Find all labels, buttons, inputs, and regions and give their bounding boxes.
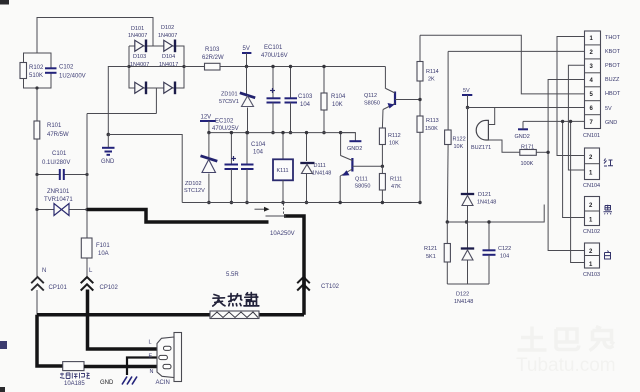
transistor Q112 xyxy=(364,67,420,129)
capacitor EC101 xyxy=(261,45,288,134)
diode D111 xyxy=(300,131,331,204)
zener ZD102 xyxy=(184,133,217,205)
transistor Q111 xyxy=(339,131,383,204)
capacitor C122 xyxy=(483,220,512,284)
power flag 5V buzzer xyxy=(462,88,472,109)
wire: bridge AC2 to L line xyxy=(87,113,156,115)
wire: L column down from y113 xyxy=(86,114,88,239)
svg-text:TVR10471: TVR10471 xyxy=(44,197,73,203)
svg-text:R111: R111 xyxy=(390,177,402,183)
svg-text:10K: 10K xyxy=(389,141,399,147)
svg-text:1N4007: 1N4007 xyxy=(130,62,149,68)
svg-text:1N4007: 1N4007 xyxy=(158,33,177,39)
svg-text:CN104: CN104 xyxy=(583,183,600,189)
resistor R113 xyxy=(417,116,439,204)
svg-text:10A250V: 10A250V xyxy=(270,231,295,237)
svg-text:CN103: CN103 xyxy=(583,272,600,278)
node sensor rail xyxy=(447,205,544,223)
svg-text:5V: 5V xyxy=(243,46,250,52)
capacitor C101 on horizontal wire xyxy=(35,151,88,180)
svg-text:1N4007: 1N4007 xyxy=(128,33,147,39)
svg-text:100K: 100K xyxy=(521,161,534,167)
wire: N column down to CP101 xyxy=(36,210,38,278)
resistor R114 xyxy=(417,35,439,116)
thermal fuse 10A185 xyxy=(60,362,90,387)
svg-text:N: N xyxy=(42,268,46,274)
watermark tubatu xyxy=(516,327,616,377)
svg-text:Q111: Q111 xyxy=(355,177,368,183)
svg-text:GND2: GND2 xyxy=(515,134,530,140)
heater element 发热盘 xyxy=(210,272,259,319)
svg-text:5.5R: 5.5R xyxy=(226,272,239,278)
svg-text:F101: F101 xyxy=(96,243,110,249)
svg-text:1N4148: 1N4148 xyxy=(312,171,331,177)
svg-text:47R/5W: 47R/5W xyxy=(47,132,69,138)
svg-text:BUZ171: BUZ171 xyxy=(471,145,491,151)
svg-text:R112: R112 xyxy=(388,133,401,139)
svg-text:104: 104 xyxy=(500,254,509,260)
svg-text:E: E xyxy=(149,354,153,360)
svg-text:ZD101: ZD101 xyxy=(221,92,238,98)
wire: PBOT pin3 to CN104 pin1 xyxy=(568,65,584,170)
zener ZD101 xyxy=(219,67,255,135)
svg-text:1U2/400V: 1U2/400V xyxy=(59,74,86,80)
resistor R111 xyxy=(379,166,402,204)
svg-text:GND: GND xyxy=(100,380,114,386)
svg-text:HBOT: HBOT xyxy=(605,91,621,97)
diode D101 xyxy=(128,26,147,52)
svg-text:R101: R101 xyxy=(47,123,62,129)
svg-text:ZD102: ZD102 xyxy=(185,181,202,187)
svg-text:0.1U/280V: 0.1U/280V xyxy=(42,160,70,166)
svg-text:CT102: CT102 xyxy=(321,284,340,290)
svg-text:Q112: Q112 xyxy=(364,93,377,99)
svg-text:2K: 2K xyxy=(428,77,435,83)
resistor R121 xyxy=(424,222,450,284)
ground rail of control section xyxy=(182,202,420,204)
svg-text:R102: R102 xyxy=(29,65,44,71)
svg-text:EC102: EC102 xyxy=(215,119,234,125)
svg-text:10A185: 10A185 xyxy=(64,381,85,387)
wire: THOT pin1 to CN104 pin2 xyxy=(557,37,585,156)
wire: 5V line to CN101 pin6 xyxy=(466,107,585,109)
svg-text:Tubatu.com: Tubatu.com xyxy=(516,355,616,376)
svg-text:R113: R113 xyxy=(426,118,439,124)
thick relay feed line from ZNR junction xyxy=(87,210,269,223)
diode D104 xyxy=(159,54,178,94)
wire: thick L line CP102 down to AC inlet L pin xyxy=(88,290,167,350)
wire: thick N heater line xyxy=(37,313,304,317)
svg-text:C104: C104 xyxy=(251,142,266,148)
power flag 5V xyxy=(242,46,251,68)
svg-text:CN102: CN102 xyxy=(583,229,600,235)
connector CN102 xyxy=(583,197,612,236)
connector CP102 chevrons xyxy=(81,268,119,291)
node 12V rail xyxy=(209,132,356,134)
wire: N column to C101 line xyxy=(36,139,38,175)
svg-text:K111: K111 xyxy=(277,168,289,174)
svg-text:1N4148: 1N4148 xyxy=(454,299,473,305)
svg-text:CP101: CP101 xyxy=(49,285,68,291)
wire: left N column down from dropper xyxy=(36,88,38,121)
svg-text:D104: D104 xyxy=(162,54,175,60)
fuse F101 xyxy=(81,238,110,277)
svg-text:10K: 10K xyxy=(332,102,343,108)
svg-text:L: L xyxy=(149,340,152,346)
svg-text:470U/16V: 470U/16V xyxy=(261,53,288,59)
node 5V rail xyxy=(220,66,385,68)
svg-text:KBOT: KBOT xyxy=(605,49,621,55)
wire: top wire from dropper to bridge top center xyxy=(37,18,153,54)
svg-text:1N4148: 1N4148 xyxy=(477,200,496,206)
wire: thick line heater up to relay contact xyxy=(302,277,306,315)
svg-text:GND2: GND2 xyxy=(347,146,362,152)
svg-text:104: 104 xyxy=(300,102,311,108)
svg-text:R171: R171 xyxy=(521,145,534,151)
svg-text:D111: D111 xyxy=(314,163,326,169)
svg-text:S8050: S8050 xyxy=(355,184,371,190)
connector CP101 chevrons xyxy=(31,268,67,291)
resistor R171 xyxy=(520,145,548,168)
svg-text:5K1: 5K1 xyxy=(426,254,436,260)
diode D102 xyxy=(158,25,177,52)
svg-text:CN101: CN101 xyxy=(583,133,600,139)
svg-text:C101: C101 xyxy=(52,151,67,157)
wire: GND line to CN101 pin7 xyxy=(523,120,585,122)
svg-text:R122: R122 xyxy=(453,137,466,143)
svg-text:D122: D122 xyxy=(456,292,469,298)
svg-text:C122: C122 xyxy=(498,246,511,252)
wire: N column down to ZNR line xyxy=(36,175,38,210)
wire: KBOT line to CN101 pin2 xyxy=(448,50,584,52)
svg-text:D121: D121 xyxy=(478,192,491,198)
svg-text:S8050: S8050 xyxy=(364,101,380,107)
wire: GND to CN103 pin1 xyxy=(571,121,585,262)
ground GND1 xyxy=(101,135,115,166)
resistor R122 xyxy=(445,51,466,222)
resistor R102 with capacitor C102 parallel box xyxy=(20,53,86,88)
svg-text:GND: GND xyxy=(101,159,115,165)
node bottom sensor rail xyxy=(447,283,489,285)
bridge rectifier box xyxy=(127,46,185,114)
wire: thick N line from thermal fuse to inlet N pin xyxy=(84,365,165,369)
svg-text:1N4017: 1N4017 xyxy=(159,62,178,68)
svg-text:D101: D101 xyxy=(131,26,144,32)
wire: below CP101 to thick corner xyxy=(36,290,38,315)
capacitor EC102 xyxy=(212,119,239,205)
svg-text:12V: 12V xyxy=(201,115,212,121)
svg-text:R114: R114 xyxy=(426,69,439,75)
svg-text:D103: D103 xyxy=(133,54,146,60)
svg-text:5V: 5V xyxy=(463,88,470,94)
wire: HBOT loop R114 top to CN101 pin5 xyxy=(420,35,585,94)
svg-text:R121: R121 xyxy=(424,246,437,252)
resistor R112 xyxy=(379,128,400,168)
svg-text:ZNR101: ZNR101 xyxy=(47,189,70,195)
capacitor C103 xyxy=(285,65,314,135)
connector CN103 xyxy=(583,243,611,278)
svg-text:R103: R103 xyxy=(205,47,220,53)
wire: GND to CN102 pin1 xyxy=(563,121,585,217)
connector CN101 xyxy=(583,31,621,139)
wire: thick N line down to thermal fuse xyxy=(37,315,63,366)
varistor ZNR101 on horizontal wire xyxy=(35,189,88,216)
capacitor C104 xyxy=(241,131,266,204)
svg-text:57C5V1: 57C5V1 xyxy=(219,99,239,105)
svg-text:R104: R104 xyxy=(331,94,346,100)
power flag 12V xyxy=(200,115,215,135)
relay coil K111 xyxy=(273,131,293,204)
svg-text:GND: GND xyxy=(605,120,617,126)
svg-text:104: 104 xyxy=(253,150,264,156)
earth symbol xyxy=(100,377,137,387)
connector CN104 xyxy=(583,148,613,189)
diode D103 xyxy=(130,54,149,94)
buzzer BUZ171 xyxy=(471,108,520,153)
ground flag GND2 over Q111 xyxy=(341,133,363,152)
svg-text:C102: C102 xyxy=(59,65,74,71)
svg-text:47K: 47K xyxy=(391,184,401,190)
svg-text:510K: 510K xyxy=(29,73,43,79)
svg-text:PBOT: PBOT xyxy=(605,63,621,69)
svg-text:BUZZ: BUZZ xyxy=(605,77,620,83)
diode D122 xyxy=(454,222,474,305)
svg-text:STC12V: STC12V xyxy=(184,188,205,194)
svg-text:EC101: EC101 xyxy=(264,45,283,51)
svg-text:470U/25V: 470U/25V xyxy=(212,126,239,132)
svg-text:62R/2W: 62R/2W xyxy=(202,55,224,61)
relay contact arm arrow xyxy=(255,204,295,238)
svg-text:10K: 10K xyxy=(454,144,464,150)
diode D121 xyxy=(461,108,496,224)
earth wire from inlet E pin xyxy=(127,358,161,376)
svg-text:N: N xyxy=(150,369,154,375)
svg-text:5V: 5V xyxy=(605,106,612,112)
svg-text:THOT: THOT xyxy=(605,35,621,41)
ground flag GND2 buzzer xyxy=(515,121,530,140)
wire: bridge DC minus to GND xyxy=(108,67,129,135)
AC inlet ACIN xyxy=(149,333,182,387)
wire: BUZZ pin4 to CN103 pin2 xyxy=(548,80,584,251)
scan artifact marks xyxy=(0,0,9,5)
svg-text:10A: 10A xyxy=(98,251,109,257)
svg-text:CP102: CP102 xyxy=(100,285,119,291)
resistor R103 xyxy=(184,47,224,70)
svg-text:150K: 150K xyxy=(425,126,438,132)
svg-text:D102: D102 xyxy=(161,25,174,31)
resistor R104 xyxy=(321,65,346,135)
svg-text:ACIN: ACIN xyxy=(156,380,170,386)
connector CT102 chevrons xyxy=(297,277,339,291)
svg-text:C103: C103 xyxy=(298,94,313,100)
wire: GND node to control ground rail xyxy=(108,135,182,203)
resistor R101 xyxy=(34,121,69,139)
